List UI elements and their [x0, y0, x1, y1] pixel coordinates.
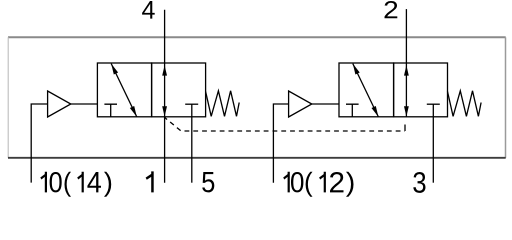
pilot actuator triangle valve V1	[48, 91, 71, 117]
wire pilot to valve V1	[71, 103, 98, 105]
label port 1	[146, 171, 154, 192]
label port 4	[142, 1, 155, 19]
pilot actuator triangle valve V2	[289, 91, 312, 117]
wire port 5	[191, 104, 193, 183]
valve V1 blocked port T right	[185, 103, 198, 105]
valve V2 body right chamber	[394, 63, 448, 117]
wire pilot to valve V2	[312, 103, 339, 105]
label port 3	[413, 172, 425, 193]
wire pilot port 10(12)	[273, 104, 289, 183]
valve V1 blocked port T left	[104, 104, 117, 117]
valve V1 body left chamber	[97, 63, 151, 117]
label port 10(14)	[40, 172, 111, 197]
valve V1 vertical flow arrowhead down	[162, 106, 167, 116]
wire pilot signal dashed riser	[404, 118, 406, 131]
valve V2 vertical flow arrowhead down	[404, 106, 409, 116]
spring valve V2	[448, 91, 482, 117]
wire port 2 into valve V2	[405, 9, 407, 117]
wire port 4 to port 1 through valve V1	[164, 10, 166, 183]
label port 2	[385, 1, 398, 18]
wire port 3	[432, 104, 434, 183]
label port 10(12)	[283, 172, 353, 197]
valve V1 body right chamber	[152, 63, 206, 117]
wire pilot signal dashed line	[165, 117, 405, 131]
valve V1 vertical flow arrowhead up	[162, 65, 167, 75]
label port 5	[202, 172, 214, 192]
spring valve V1	[206, 91, 240, 117]
valve V2 diagonal flow arrow	[353, 64, 379, 117]
valve V2 vertical flow arrowhead up	[404, 65, 409, 75]
valve V2 blocked port T right	[427, 103, 440, 105]
valve V2 body left chamber	[339, 63, 394, 117]
wire pilot port 10(14)	[31, 104, 47, 183]
valve V1 diagonal flow arrow	[111, 64, 137, 117]
valve V2 blocked port T left	[346, 104, 359, 117]
